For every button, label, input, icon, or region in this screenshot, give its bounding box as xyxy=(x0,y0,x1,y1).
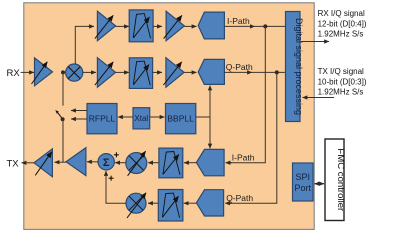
svg-text:RX: RX xyxy=(7,68,21,79)
filter F2 (RX Q low-pass) xyxy=(129,58,152,89)
block RFPLL xyxy=(87,104,117,134)
wire switch to TX row xyxy=(62,119,64,162)
wire TX I arrow into DAC1 xyxy=(226,162,233,164)
svg-text:FMC controller: FMC controller xyxy=(335,148,346,212)
dac U4 (TX Q DAC) xyxy=(196,190,223,216)
amplifier A1 (RX input VGA) xyxy=(32,58,53,86)
adc U2 (RX Q ADC) xyxy=(198,59,224,84)
block Xtal xyxy=(133,108,150,129)
node junction Q to TX xyxy=(275,70,279,74)
wire A5 to ADC2 xyxy=(184,71,196,73)
node LO tap junction xyxy=(61,70,65,74)
wire arrow into A2 xyxy=(88,25,94,27)
wire RX digital out arrow xyxy=(300,41,329,43)
node plus sign Q input xyxy=(109,176,114,181)
wire mixer top to I-path row xyxy=(75,26,89,64)
switch SW1 (LO select) xyxy=(55,110,64,121)
block BBPLL xyxy=(166,104,196,134)
wire M2 to summer xyxy=(115,162,126,164)
wire ADC2 to DSP xyxy=(224,71,252,73)
svg-text:I-Path: I-Path xyxy=(227,16,250,26)
adc U1 (RX I ADC) xyxy=(198,12,224,39)
svg-text:Port: Port xyxy=(294,183,311,193)
svg-text:TX I/Q signal: TX I/Q signal xyxy=(318,67,364,76)
svg-text:Xtal: Xtal xyxy=(134,114,148,123)
wire BBPLL clock tee xyxy=(196,116,210,118)
wire mixer to A4 xyxy=(83,71,96,73)
wire DAC2 to F4 xyxy=(184,202,197,204)
wire F2 to A5 xyxy=(153,71,162,73)
wire SPI to FMC double arrow xyxy=(315,183,325,185)
filter F3 (TX I low-pass) xyxy=(159,148,183,178)
wire T1 to A7 with LO join xyxy=(55,161,67,163)
node plus sign I input xyxy=(114,152,119,157)
svg-text:12-bit (D[0:4]): 12-bit (D[0:4]) xyxy=(318,19,367,28)
wire A4 to F2 xyxy=(116,71,129,73)
filter F4 (TX Q low-pass) xyxy=(158,190,183,222)
wire TX output arrow xyxy=(22,162,35,164)
wire Q junction down to TX Q row xyxy=(230,72,277,203)
wire clock up to ADC2 xyxy=(209,86,211,118)
wire TX digital in arrow xyxy=(303,97,335,99)
mixer M1 (RX mixer) xyxy=(66,64,83,81)
svg-text:Q-Path: Q-Path xyxy=(226,62,253,72)
svg-text:Σ: Σ xyxy=(103,157,110,169)
wire DAC1 to F3 xyxy=(184,162,196,164)
wire RFPLL LO out lower xyxy=(71,118,87,120)
wire Xtal to RFPLL xyxy=(118,116,133,118)
svg-text:1.92MHz S/s: 1.92MHz S/s xyxy=(318,88,364,97)
wire TX Q arrow into DAC2 xyxy=(225,202,232,204)
block DSP (Digital signal processing) xyxy=(286,12,304,122)
wire M3 to summer bottom xyxy=(106,174,126,203)
amplifier A2 (RX I VGA) xyxy=(95,11,116,41)
wire Xtal to BBPLL xyxy=(150,116,165,118)
wire F3 to M2 xyxy=(148,162,159,164)
filter F1 (RX I low-pass) xyxy=(129,10,153,42)
svg-text:TX: TX xyxy=(7,158,20,169)
amplifier A5 (RX Q VGA 2) xyxy=(163,58,184,87)
wire RX input arrow xyxy=(21,71,35,73)
wire A3 to ADC1 xyxy=(184,25,196,27)
amplifier A4 (RX Q VGA) xyxy=(95,58,116,87)
wire F4 to M3 xyxy=(148,202,158,204)
amplifier A7 (TX output VGA) xyxy=(34,149,52,177)
svg-text:BBPLL: BBPLL xyxy=(167,114,194,124)
svg-text:Q-Path: Q-Path xyxy=(226,193,253,203)
svg-text:SPI: SPI xyxy=(295,172,310,182)
amplifier A6 (TX driver) xyxy=(66,148,86,176)
chip body (orange background box) xyxy=(24,3,314,230)
wire ADC1 to DSP xyxy=(224,25,254,27)
svg-text:RX I/Q signal: RX I/Q signal xyxy=(318,9,365,18)
summer S1 xyxy=(98,154,114,170)
amplifier A3 (RX I VGA 2) xyxy=(164,11,185,41)
svg-text:I-Path: I-Path xyxy=(232,152,255,162)
wire RFPLL LO out upper xyxy=(71,110,87,112)
svg-text:Digital signal processing: Digital signal processing xyxy=(294,18,304,115)
wire A2 to F1 xyxy=(116,25,129,27)
dac U3 (TX I DAC) xyxy=(196,149,224,175)
wire junction to switch xyxy=(62,72,64,105)
svg-text:10-bit (D[0:3]): 10-bit (D[0:3]) xyxy=(318,77,367,86)
wire F1 to A3 xyxy=(153,25,162,27)
wire I junction down to TX I row xyxy=(230,26,265,162)
node junction I to TX xyxy=(263,24,267,28)
wire clock down to DAC1 xyxy=(209,117,211,149)
mixer M2 (TX I mixer) xyxy=(126,151,147,176)
block FMC controller xyxy=(325,139,346,221)
block SPI Port xyxy=(293,163,314,201)
mixer M3 (TX Q mixer) xyxy=(126,193,146,218)
svg-text:RFPLL: RFPLL xyxy=(89,114,116,124)
svg-text:1.92MHz S/s: 1.92MHz S/s xyxy=(318,30,364,39)
wire summer to T1 xyxy=(87,161,98,163)
